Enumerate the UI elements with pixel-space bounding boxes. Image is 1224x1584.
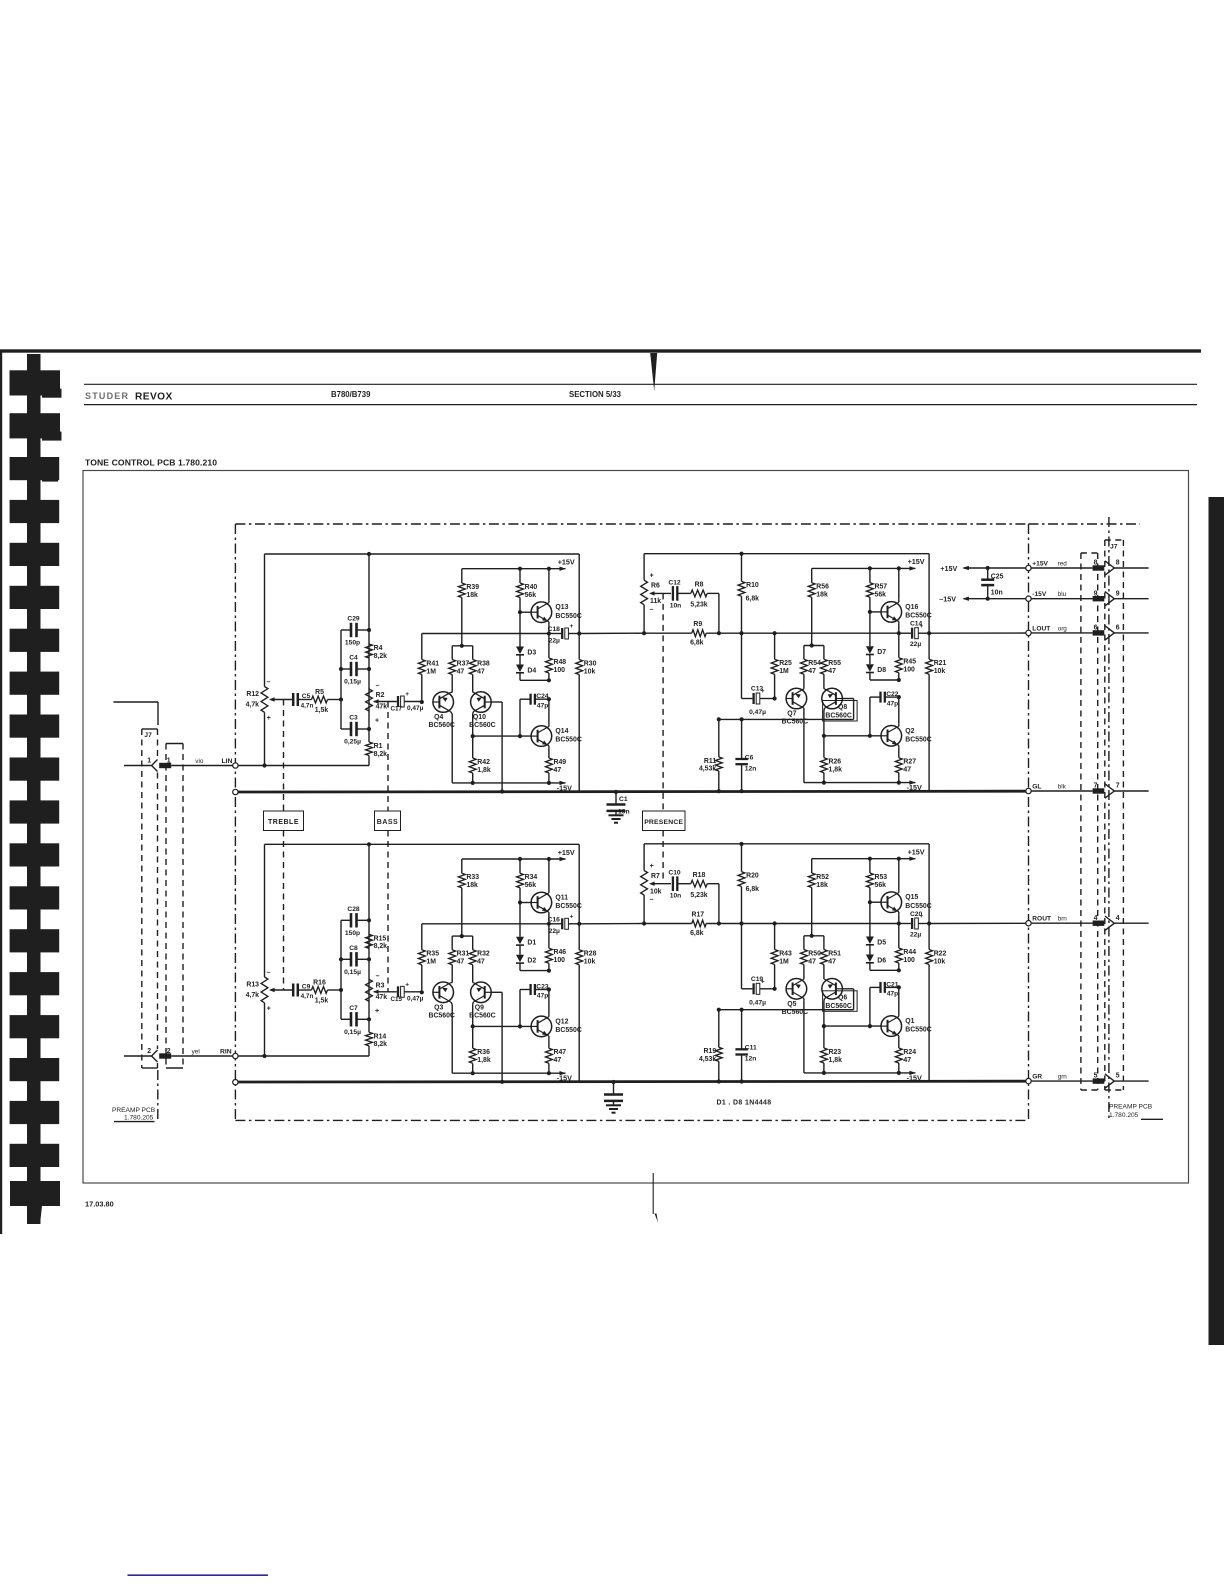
svg-text:4: 4 (1116, 915, 1120, 922)
svg-text:D3: D3 (527, 649, 536, 656)
capacitor C29 (341, 629, 350, 631)
svg-text:GL: GL (1032, 783, 1041, 790)
resistor R9 in output wire (692, 630, 706, 637)
ground bus GL (233, 789, 238, 794)
svg-text:+: + (570, 914, 574, 921)
capacitor C2 (613, 1082, 615, 1094)
svg-text:R32: R32 (477, 951, 490, 958)
wire emitter of Q10 (472, 691, 475, 693)
svg-text:-15V: -15V (907, 783, 922, 792)
wire ground-cap row (719, 718, 854, 720)
svg-text:BC550C: BC550C (905, 613, 931, 620)
capacitor C3 (341, 728, 350, 730)
svg-text:R51: R51 (828, 950, 841, 957)
svg-text:R1: R1 (374, 743, 383, 750)
resistor R50 (803, 936, 805, 950)
rheostat R2 (366, 689, 373, 711)
wire top loop L2 (644, 553, 929, 555)
svg-text:0,47µ: 0,47µ (749, 999, 766, 1006)
connector J7 pin 1 left (152, 760, 158, 772)
resistor R27 (895, 758, 902, 773)
svg-text:47k: 47k (376, 994, 388, 1001)
transistor Q7 (786, 688, 807, 709)
wire emitter of Q14 (548, 746, 550, 748)
svg-text:R17: R17 (691, 912, 704, 919)
bass link dashed (387, 702, 389, 812)
svg-text:R10: R10 (746, 582, 759, 589)
wire ground-cap row (719, 1009, 854, 1011)
wire +15V rail (812, 858, 916, 860)
capacitor C17 (397, 696, 399, 707)
svg-text:6,8k: 6,8k (690, 930, 704, 937)
svg-text:10n: 10n (670, 602, 682, 609)
svg-text:C9: C9 (302, 984, 311, 991)
resistor R42 (472, 736, 474, 758)
wire -15V rail (452, 782, 565, 784)
svg-text:5,23k: 5,23k (690, 892, 707, 899)
wire R8 branch (707, 592, 719, 594)
svg-text:47: 47 (903, 767, 911, 774)
resistor R5 (312, 696, 328, 703)
svg-text:R46: R46 (554, 949, 567, 956)
svg-text:R2: R2 (376, 692, 385, 699)
svg-text:-15V: -15V (907, 1073, 922, 1082)
wire top loop L1 (265, 553, 580, 555)
wire collector of Q1 (898, 1014, 900, 1016)
svg-text:Q3: Q3 (434, 1004, 443, 1011)
transistor Q12 (531, 1016, 552, 1037)
registration tick bottom (652, 1173, 654, 1214)
resistor R20 (741, 844, 743, 872)
wire base of Q12 (473, 1025, 531, 1027)
svg-text:J7: J7 (144, 732, 152, 739)
svg-text:R19: R19 (704, 1048, 717, 1055)
svg-text:10k: 10k (584, 668, 596, 675)
svg-text:C16: C16 (548, 916, 561, 923)
svg-text:0,15µ: 0,15µ (344, 679, 361, 686)
ground symbol C2 (613, 1101, 615, 1105)
resistor R23 (823, 1026, 825, 1048)
resistor R16 (312, 987, 328, 994)
wire -15V rail (804, 782, 916, 784)
svg-text:1,8k: 1,8k (477, 1057, 491, 1064)
svg-text:D8: D8 (877, 667, 886, 674)
wire input (238, 765, 369, 767)
resistor R4 (366, 644, 373, 658)
svg-text:D6: D6 (877, 957, 886, 964)
svg-text:1M: 1M (426, 959, 436, 966)
diode D1 (519, 903, 521, 937)
svg-text:BC550C: BC550C (555, 737, 581, 744)
svg-text:12n: 12n (745, 1056, 757, 1063)
wire emitter resistor tops (452, 935, 473, 937)
svg-text:-15V: -15V (1032, 591, 1047, 598)
svg-text:C6: C6 (745, 754, 754, 761)
wire collector of Q4 (451, 712, 452, 714)
label box PRESENCE (643, 811, 686, 831)
wire base of Q14 (473, 735, 531, 737)
svg-text:0,25µ: 0,25µ (344, 739, 361, 746)
svg-text:47p: 47p (887, 991, 899, 998)
svg-text:47k: 47k (376, 704, 388, 711)
wire emitter of Q12 (548, 1036, 550, 1038)
wire wiper of R2 (374, 701, 397, 703)
header rule upper (84, 383, 1197, 385)
svg-text:R31: R31 (457, 951, 470, 958)
diode D5 (869, 902, 871, 936)
transistor Q9 (471, 982, 492, 1003)
wire collector of Q6 (823, 999, 826, 1001)
page left edge (0, 350, 2, 1234)
ground symbol C1 (615, 811, 617, 815)
svg-text:red: red (1058, 560, 1068, 567)
svg-text:R37: R37 (457, 660, 470, 667)
blue pen mark (128, 1574, 269, 1576)
svg-text:+15V: +15V (908, 557, 925, 566)
svg-text:C5: C5 (302, 693, 311, 700)
cable dashed box right (1080, 553, 1082, 1090)
wire -15V supply (962, 597, 969, 601)
capacitor C16 output (561, 918, 563, 929)
svg-text:2: 2 (147, 1048, 151, 1055)
resistor R39 (461, 569, 463, 583)
wire base of Q9 to ground bus (491, 991, 502, 993)
cable dashed box left (166, 743, 183, 745)
wire emitter of Q1 (898, 1036, 900, 1038)
capacitor C7 (341, 1018, 350, 1020)
svg-text:R48: R48 (554, 659, 567, 666)
connector J7 pin 6 (LOUT) (1031, 632, 1092, 634)
resistor R37 (451, 646, 453, 660)
wire L1 output to L2 (579, 632, 644, 634)
potentiometer R13 (volume) (264, 844, 266, 977)
preamp PCB boundary right (dash-dot) (1029, 523, 1141, 525)
svg-text:+: + (650, 573, 654, 580)
svg-text:6,8k: 6,8k (746, 886, 760, 893)
svg-text:D5: D5 (877, 939, 886, 946)
wire +15V supply (962, 566, 969, 570)
svg-text:PREAMP PCB: PREAMP PCB (1109, 1104, 1153, 1111)
label PREAMP PCB left (157, 1070, 159, 1120)
svg-text:47p: 47p (887, 700, 899, 707)
resistor R24 (895, 1048, 902, 1063)
svg-text:R47: R47 (554, 1049, 567, 1056)
svg-text:–: – (376, 973, 380, 980)
resistor R22 (928, 924, 930, 950)
svg-text:J7: J7 (1110, 544, 1118, 551)
svg-text:4,7n: 4,7n (301, 993, 314, 1000)
presence link dashed (662, 593, 664, 811)
connector J7 pin 8 (+15V) (1031, 567, 1092, 569)
resistor R49 (546, 758, 553, 773)
svg-text:47: 47 (903, 1057, 911, 1064)
svg-text:150p: 150p (345, 930, 360, 937)
transistor Q16 (881, 602, 902, 623)
svg-text:R41: R41 (426, 660, 439, 667)
wire diode chain to emitter resistor (869, 963, 871, 971)
svg-text:-15V: -15V (557, 783, 572, 792)
svg-text:47: 47 (457, 668, 465, 675)
wire base of Q8 to ground bus (842, 698, 853, 700)
svg-text:R45: R45 (903, 659, 916, 666)
svg-text:–: – (650, 897, 654, 904)
wire tone stack left column (340, 630, 342, 729)
wire feedback node (422, 923, 549, 925)
wire top loop R1 (265, 843, 580, 845)
svg-text:1.780.205: 1.780.205 (124, 1115, 154, 1122)
svg-text:R34: R34 (525, 874, 538, 881)
resistor R35 (421, 924, 423, 950)
svg-text:R54: R54 (808, 660, 821, 667)
svg-text:7: 7 (1116, 783, 1120, 790)
svg-text:1: 1 (147, 757, 151, 764)
svg-text:R21: R21 (934, 660, 947, 667)
svg-text:Q14: Q14 (555, 728, 568, 735)
diode D4 (519, 655, 521, 665)
resistor R38 (472, 646, 474, 660)
svg-text:0,15µ: 0,15µ (344, 1029, 361, 1036)
resistor R57 (869, 568, 871, 582)
svg-text:1.780.205: 1.780.205 (1109, 1112, 1139, 1119)
resistor R1 (366, 742, 373, 756)
svg-text:56k: 56k (875, 592, 887, 599)
svg-text:10k: 10k (650, 889, 662, 896)
svg-text:18k: 18k (816, 592, 828, 599)
wire feedback node (775, 632, 899, 634)
svg-text:R11: R11 (704, 758, 716, 765)
svg-text:10k: 10k (584, 959, 596, 966)
svg-text:C10: C10 (668, 870, 681, 877)
svg-text:C25: C25 (991, 574, 1004, 581)
wire left cable entry L (113, 701, 158, 703)
transistor Q11 (531, 892, 552, 913)
capacitor C5 (292, 693, 295, 706)
transistor Q8 (822, 688, 843, 709)
svg-text:R8: R8 (695, 582, 704, 589)
capacitor C4 (341, 668, 350, 670)
svg-text:R27: R27 (903, 759, 916, 766)
resistor R14 (366, 1032, 373, 1046)
svg-text:ROUT: ROUT (1032, 916, 1051, 923)
svg-text:4,53k: 4,53k (699, 1056, 716, 1063)
svg-text:22µ: 22µ (910, 641, 921, 648)
svg-text:R36: R36 (477, 1049, 490, 1056)
resistor R53 (869, 859, 871, 873)
connector J7 pin 5 (GR) (1031, 1080, 1092, 1082)
wire tone stack main column (368, 554, 370, 742)
svg-text:56k: 56k (525, 592, 537, 599)
svg-text:BC560C: BC560C (428, 1012, 454, 1019)
svg-text:R44: R44 (903, 949, 916, 956)
svg-text:R56: R56 (816, 584, 829, 591)
connector J7 pin 9 (-15V) (1031, 598, 1092, 600)
ground bus GR (233, 1080, 238, 1085)
connector J7 dashed box right (1104, 540, 1106, 1090)
svg-text:47: 47 (554, 1057, 562, 1064)
wire output row segments (644, 632, 692, 634)
transistor Q4 (433, 692, 454, 713)
wire base of Q1 (824, 1025, 881, 1027)
connector J7 pin 4 (ROUT) (1031, 922, 1092, 924)
wire output row segments (644, 923, 692, 925)
resistor R46 (548, 924, 550, 949)
svg-text:BASS: BASS (377, 819, 398, 826)
resistor R18 (691, 880, 707, 887)
svg-text:22µ: 22µ (549, 928, 560, 935)
transistor Q15 (881, 892, 902, 913)
transistor Q2 (881, 726, 902, 747)
resistor R56 (811, 568, 813, 582)
svg-text:11k: 11k (650, 598, 661, 605)
svg-text:REVOX: REVOX (135, 392, 173, 403)
svg-text:+15V: +15V (558, 848, 575, 857)
svg-text:R26: R26 (829, 759, 842, 766)
wire -15V rail (452, 1072, 565, 1074)
svg-text:LIN: LIN (222, 758, 233, 765)
svg-text:Q13: Q13 (555, 604, 568, 611)
svg-text:Q7: Q7 (787, 711, 796, 718)
svg-text:org: org (1058, 625, 1068, 632)
svg-text:C14: C14 (910, 621, 923, 628)
wire collector of Q3 (451, 1002, 452, 1004)
rheostat R3 (366, 979, 373, 1001)
svg-text:Q10: Q10 (473, 714, 486, 721)
wire input (238, 1055, 369, 1057)
transistor Q13 (531, 602, 552, 623)
transistor Q1 (881, 1016, 902, 1037)
wire emitter of Q15 (898, 912, 900, 914)
svg-text:100: 100 (903, 667, 915, 674)
svg-text:BC550C: BC550C (555, 1027, 581, 1034)
wire emitter of Q3 (451, 982, 452, 984)
svg-text:TREBLE: TREBLE (268, 819, 299, 826)
svg-text:6: 6 (1116, 625, 1120, 632)
svg-text:C3: C3 (349, 715, 358, 722)
svg-text:47: 47 (808, 958, 816, 965)
svg-text:BC560C: BC560C (825, 1003, 851, 1010)
wire collector of Q7 (803, 708, 805, 710)
svg-text:47p: 47p (537, 993, 549, 1000)
svg-text:10k: 10k (934, 958, 946, 965)
capacitor C28 (341, 919, 350, 921)
svg-text:Q12: Q12 (555, 1018, 568, 1025)
svg-text:C1: C1 (619, 796, 628, 803)
svg-text:56k: 56k (875, 882, 887, 889)
svg-text:D1: D1 (527, 940, 536, 947)
svg-text:150p: 150p (345, 640, 360, 647)
svg-text:TONE CONTROL PCB 1.780.210: TONE CONTROL PCB 1.780.210 (85, 458, 217, 468)
diode D6 (869, 945, 871, 955)
svg-text:4,7n: 4,7n (301, 703, 314, 710)
connector J7 pin 7 (GL) (1031, 790, 1092, 792)
svg-text:+: + (267, 1006, 271, 1013)
capacitor C21 (870, 986, 881, 988)
svg-text:R12: R12 (246, 691, 259, 698)
outer frame (83, 471, 1189, 1184)
wire collector of Q8 (823, 708, 826, 710)
capacitor C11 (741, 1010, 743, 1049)
wire emitter resistor tops (804, 935, 824, 937)
svg-text:1M: 1M (426, 668, 436, 675)
svg-text:4,7k: 4,7k (246, 702, 260, 709)
transistor Q6 (822, 979, 843, 1000)
resistor R45 (898, 633, 900, 658)
capacitor C12 (672, 586, 674, 601)
wire base of Q10 to ground bus (491, 701, 502, 703)
svg-text:47: 47 (477, 959, 485, 966)
wire wiper of R3 (374, 991, 397, 993)
capacitor C8 (341, 958, 350, 960)
svg-text:R13: R13 (246, 982, 259, 989)
svg-text:yel: yel (192, 1049, 200, 1056)
capacitor C15 (397, 986, 399, 997)
svg-text:vio: vio (195, 758, 204, 765)
wire +15V rail (462, 568, 566, 570)
svg-text:Q1: Q1 (905, 1018, 914, 1025)
svg-text:18k: 18k (466, 592, 478, 599)
binding holes (10, 371, 60, 394)
capacitor C9 (292, 984, 295, 997)
svg-text:–15V: –15V (939, 595, 956, 604)
page right edge black bar (1209, 497, 1224, 1345)
svg-text:0,47µ: 0,47µ (749, 709, 766, 716)
wire emitter of Q2 (898, 746, 900, 748)
svg-text:4,7k: 4,7k (246, 992, 260, 999)
svg-text:C15: C15 (391, 996, 403, 1003)
wire R1 output to R2 (579, 923, 644, 925)
svg-text:BC560C: BC560C (825, 713, 851, 720)
capacitor C13 (741, 633, 743, 698)
svg-text:1M: 1M (779, 668, 789, 675)
svg-text:R53: R53 (875, 874, 888, 881)
svg-text:1,5k: 1,5k (315, 997, 329, 1004)
label box TREBLE (264, 811, 304, 831)
wire feedback node (422, 633, 549, 635)
svg-text:SECTION 5/33: SECTION 5/33 (569, 390, 622, 399)
wire diode chain to emitter resistor (519, 963, 521, 971)
potentiometer R7 (presence) (643, 844, 645, 871)
svg-text:47: 47 (808, 668, 816, 675)
svg-text:Q15: Q15 (905, 894, 918, 901)
svg-text:+: + (375, 718, 379, 725)
svg-text:+15V: +15V (558, 558, 575, 567)
wire base of Q2 (824, 735, 881, 737)
wire +15V rail (462, 858, 566, 860)
resistor R31 (451, 936, 453, 950)
svg-text:6,8k: 6,8k (746, 596, 760, 603)
svg-text:+15V: +15V (908, 848, 925, 857)
registration wedge top (650, 353, 657, 391)
wire R8 branch (707, 883, 719, 885)
label box Q6 (823, 991, 858, 1012)
svg-text:R49: R49 (554, 759, 567, 766)
wire base of Q11 (520, 902, 531, 904)
capacitor C1 (615, 792, 617, 804)
svg-text:47: 47 (828, 668, 836, 675)
svg-text:C19: C19 (751, 976, 764, 983)
wire block top (578, 554, 580, 634)
svg-text:+: + (405, 982, 409, 989)
svg-text:C18: C18 (548, 626, 561, 633)
svg-text:R57: R57 (875, 584, 888, 591)
svg-text:BC560C: BC560C (428, 722, 454, 729)
capacitor C18 output (561, 628, 563, 639)
resistor R34 (519, 859, 521, 873)
capacitor C23 (520, 989, 531, 991)
resistor R10 (741, 554, 743, 582)
svg-text:–: – (650, 606, 654, 613)
wire emitter of Q8 (823, 688, 826, 690)
